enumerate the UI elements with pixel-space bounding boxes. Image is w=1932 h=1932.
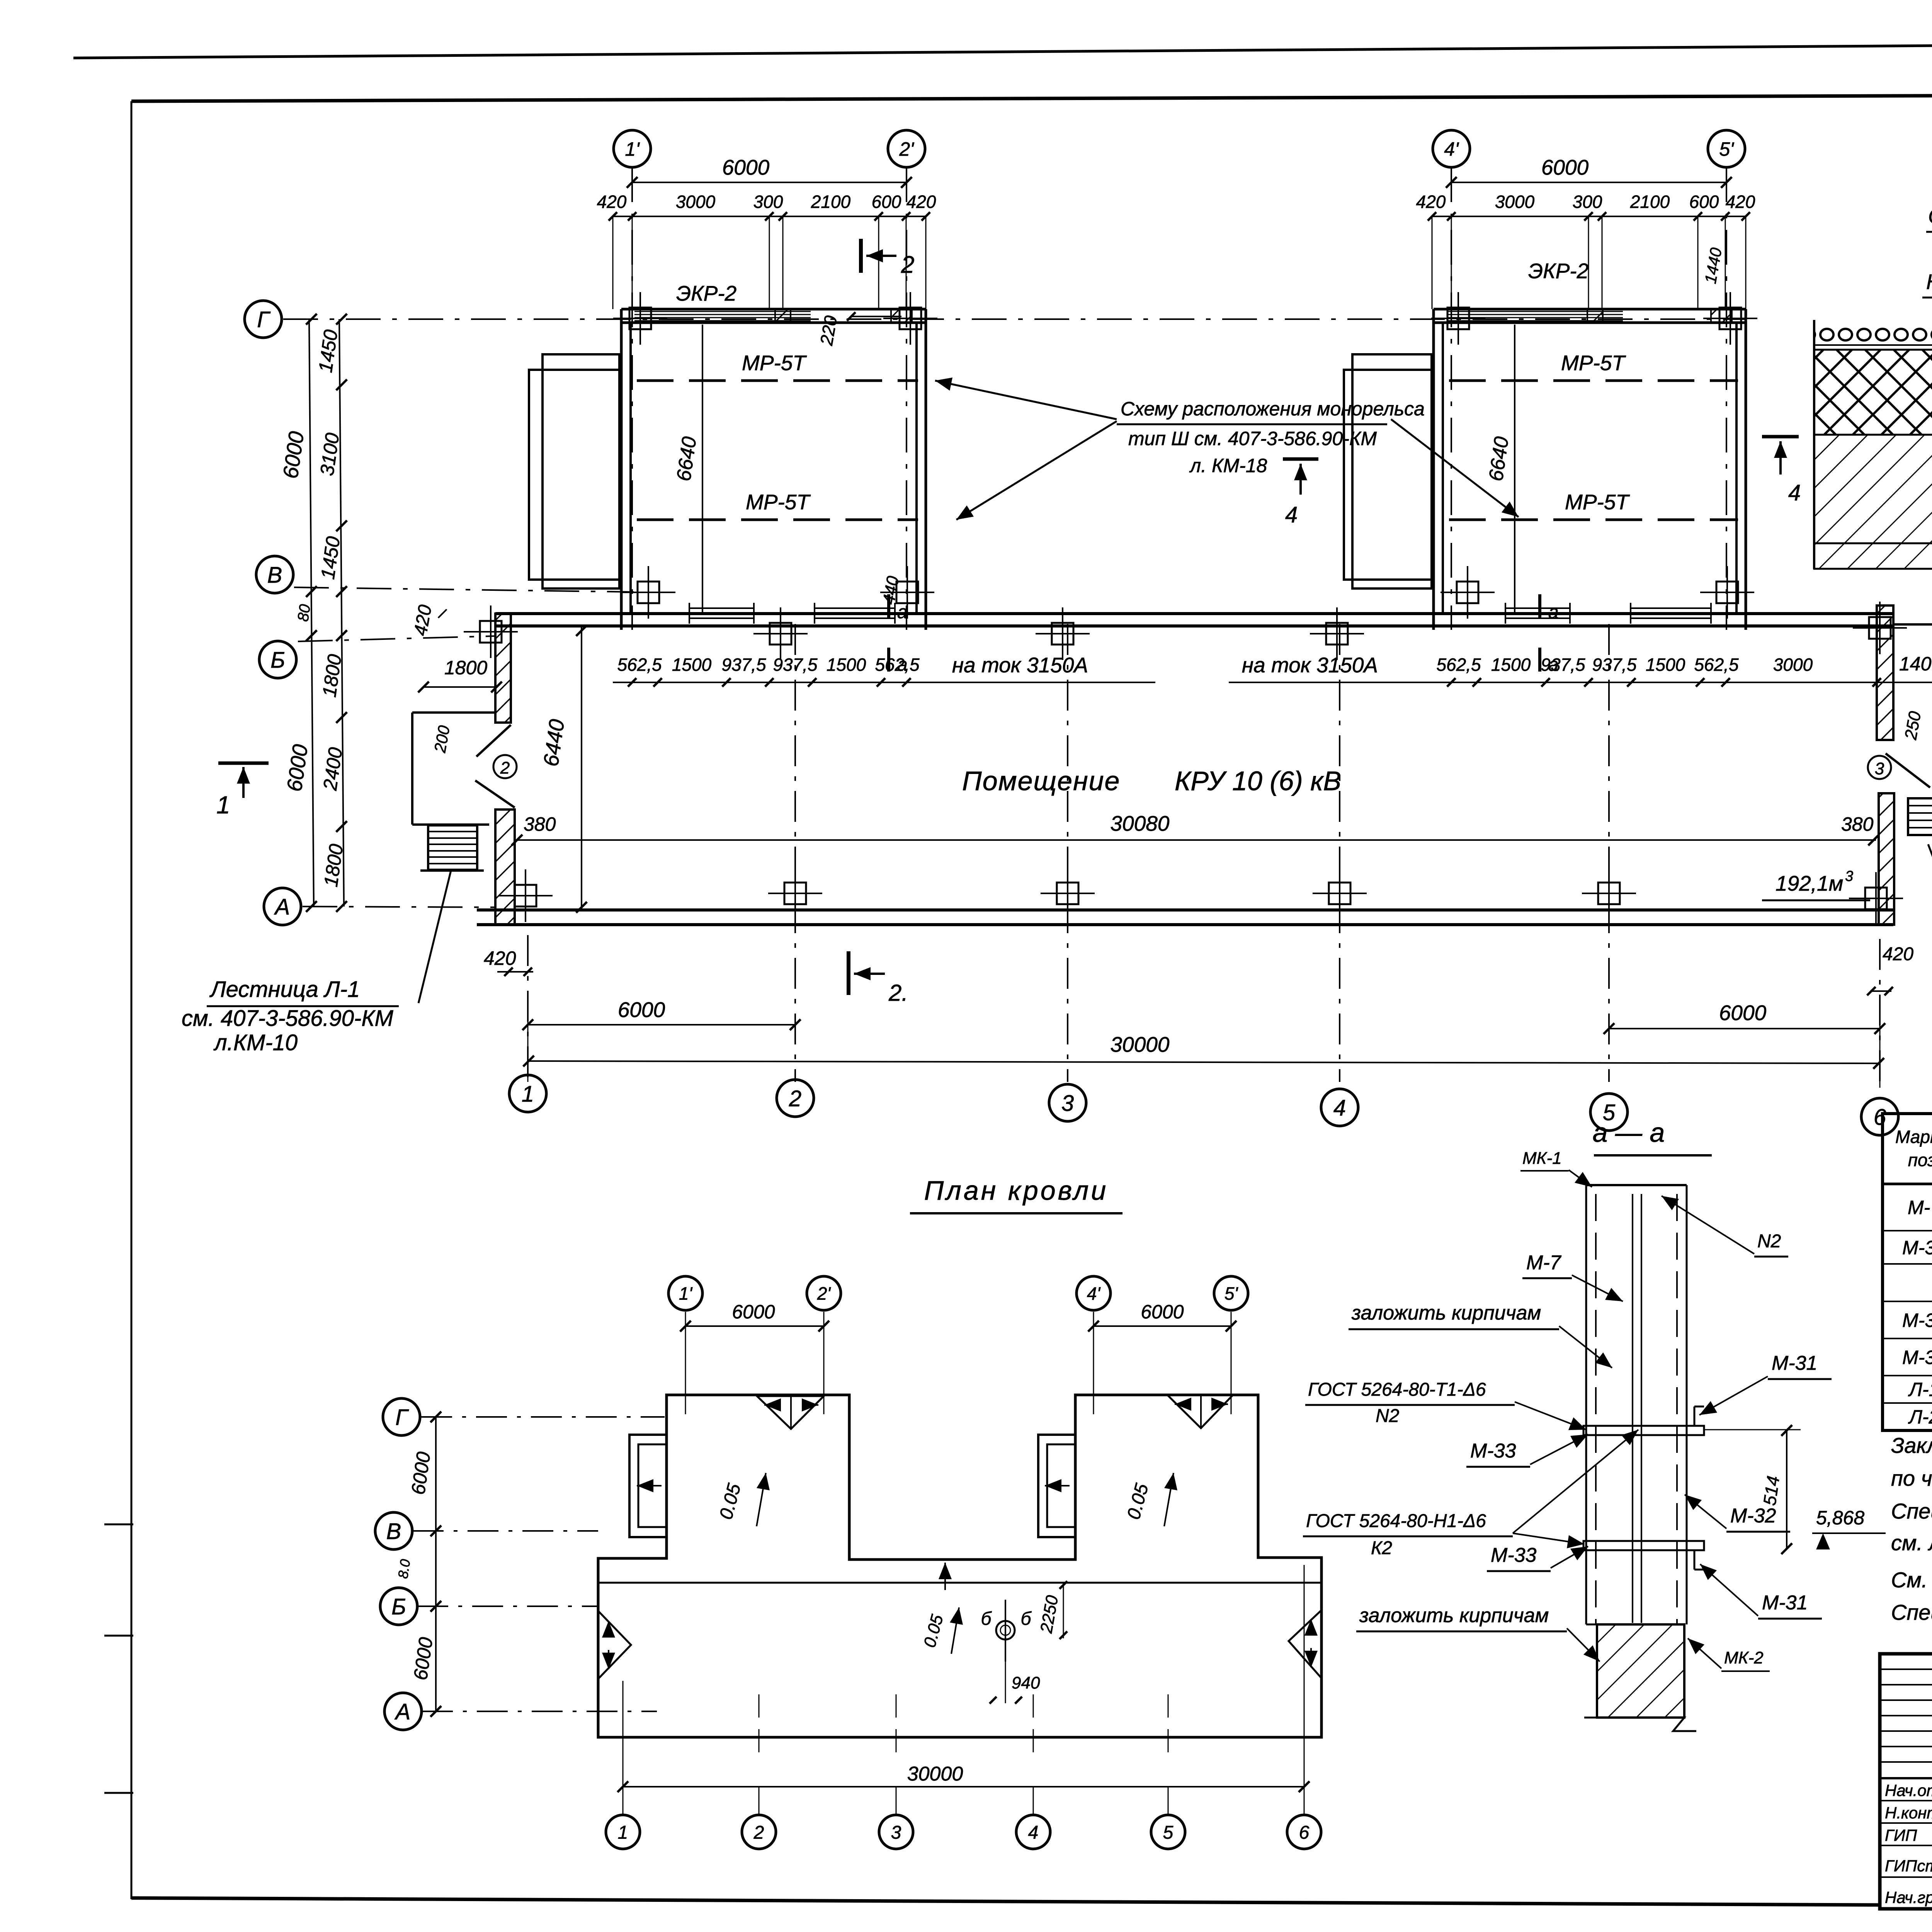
monorail MP-5t dashed [637, 379, 918, 382]
svg-text:М-33: М-33 [1470, 1440, 1516, 1462]
svg-text:б: б [1021, 1609, 1032, 1629]
svg-text:Марка,: Марка, [1895, 1127, 1932, 1147]
spec table grid [1883, 1114, 1932, 1430]
room1 axis circles [614, 130, 651, 167]
a-a flange 2 [1583, 1541, 1704, 1550]
room inner width dim [1514, 325, 1515, 614]
room axes [631, 167, 633, 630]
svg-text:М-31: М-31 [1772, 1352, 1817, 1374]
svg-text:420: 420 [1883, 944, 1913, 964]
svg-text:МР-5Т: МР-5Т [1561, 351, 1626, 375]
svg-text:3000: 3000 [1773, 655, 1813, 675]
column axes dash-dot vertical lines [794, 624, 796, 1082]
svg-text:600: 600 [1689, 192, 1719, 212]
svg-text:420: 420 [1726, 192, 1755, 212]
svg-text:192,1м: 192,1м [1776, 871, 1843, 895]
svg-text:6000: 6000 [1541, 155, 1589, 179]
section mark 2 top [859, 239, 863, 273]
svg-text:1: 1 [216, 791, 230, 819]
svg-text:ГОСТ 5264-80-Т1-Δ6: ГОСТ 5264-80-Т1-Δ6 [1308, 1379, 1486, 1400]
svg-text:А: А [274, 895, 290, 920]
svg-text:В: В [267, 563, 282, 588]
svg-text:4': 4' [1444, 138, 1459, 160]
svg-text:см. лист АС2-26: см. лист АС2-26 [1891, 1531, 1932, 1555]
svg-text:Спецификацию марок МК-1 и М: Спецификацию марок МК-1 и МК-2 [1891, 1499, 1932, 1523]
svg-text:См. вместе с листами АС2-6;: См. вместе с листами АС2-6;8. [1891, 1568, 1932, 1592]
svg-text:на ток 3150А: на ток 3150А [952, 653, 1088, 677]
svg-text:МК-1: МК-1 [1522, 1149, 1562, 1168]
svg-text:2: 2 [500, 759, 510, 777]
svg-text:Закладные в стене по оси „: Закладные в стене по оси „ б" для лестни… [1891, 1433, 1932, 1458]
svg-text:Помещение: Помещение [962, 766, 1120, 796]
roof letter axis lines [421, 1416, 665, 1418]
top wall grille lines [1447, 311, 1623, 312]
stairs L-1 [428, 825, 477, 870]
upper room walls [621, 308, 926, 311]
roof col stubs [759, 1694, 760, 1762]
upper room walls [1434, 308, 1746, 311]
svg-text:6000: 6000 [1141, 1301, 1184, 1323]
svg-text:6000: 6000 [1719, 1001, 1767, 1025]
room inner width dim [702, 325, 703, 614]
section mark 1 (left) [218, 762, 269, 765]
roof bottom circles [606, 1815, 640, 1849]
top wall grille lines [634, 311, 811, 312]
room1 porch [529, 370, 621, 580]
svg-text:1500: 1500 [672, 655, 712, 675]
svg-text:4: 4 [1285, 502, 1298, 527]
svg-text:б: б [981, 1609, 992, 1629]
fold marks [104, 1524, 133, 1526]
svg-text:N2: N2 [1757, 1231, 1781, 1252]
svg-text:30080: 30080 [1111, 811, 1170, 835]
svg-text:5,868: 5,868 [1816, 1507, 1864, 1529]
svg-text:4: 4 [1333, 1095, 1346, 1121]
svg-text:937,5: 937,5 [721, 655, 766, 675]
roof block 1 porch [629, 1435, 667, 1537]
svg-text:Нач.гр: Нач.гр [1885, 1888, 1932, 1906]
svg-text:Л-1: Л-1 [1908, 1379, 1932, 1400]
svg-text:3: 3 [1875, 759, 1884, 778]
wall small dims row (room1) [613, 682, 1155, 683]
svg-text:1800: 1800 [444, 657, 487, 679]
svg-text:Б: Б [391, 1594, 406, 1619]
svg-text:М-32: М-32 [1902, 1310, 1932, 1331]
svg-text:СБ7А-1: СБ7А-1 [1928, 204, 1932, 228]
svg-text:3000: 3000 [1495, 192, 1535, 212]
svg-text:1400: 1400 [1899, 653, 1932, 675]
svg-text:Л-2: Л-2 [1908, 1406, 1932, 1428]
svg-text:80: 80 [294, 603, 314, 622]
svg-text:600: 600 [872, 192, 901, 212]
svg-text:М-33: М-33 [1491, 1544, 1537, 1566]
svg-text:3: 3 [1061, 1091, 1074, 1116]
svg-text:ГОСТ 5264-80-Н1-Δ6: ГОСТ 5264-80-Н1-Δ6 [1306, 1511, 1486, 1531]
svg-text:2: 2 [789, 1086, 801, 1111]
svg-text:Г: Г [257, 307, 271, 332]
svg-text:М-31: М-31 [1902, 1237, 1932, 1259]
hall inner height dim 6440 [581, 626, 582, 910]
letter axis lines [283, 318, 1746, 320]
svg-text:420: 420 [1416, 192, 1446, 212]
paper top edge scan line [73, 40, 1932, 58]
roof section b mark [996, 1621, 1015, 1639]
left wall hatched segments [495, 614, 511, 723]
svg-text:Лестница Л-1: Лестница Л-1 [209, 977, 360, 1002]
svg-text:937,5: 937,5 [1592, 655, 1637, 675]
svg-text:2100: 2100 [1630, 192, 1670, 212]
room2 dim row [1432, 216, 1746, 217]
room1 dim row 420/3000/300/2100/600/420 [613, 216, 926, 217]
svg-text:ГИПстр: ГИПстр [1885, 1857, 1932, 1875]
main hall bottom wall [477, 908, 1893, 912]
svg-text:Нач.отд: Нач.отд [1885, 1781, 1932, 1799]
svg-text:30000: 30000 [907, 1763, 963, 1785]
svg-text:В: В [386, 1519, 401, 1544]
svg-text:6000: 6000 [618, 998, 665, 1022]
svg-text:л.КМ-10: л.КМ-10 [213, 1030, 298, 1055]
svg-text:1: 1 [618, 1822, 628, 1843]
svg-text:4': 4' [1087, 1284, 1101, 1304]
svg-text:4: 4 [1788, 480, 1801, 505]
svg-text:6: 6 [1874, 1105, 1886, 1130]
section mark 4 left [1283, 457, 1318, 461]
a-a angles M31 [1694, 1406, 1696, 1426]
svg-text:заложить кирпичам: заложить кирпичам [1359, 1604, 1549, 1627]
svg-text:5: 5 [1163, 1822, 1173, 1843]
svg-text:М-7: М-7 [1908, 1197, 1932, 1218]
svg-text:1': 1' [679, 1284, 693, 1304]
svg-text:4: 4 [1028, 1822, 1039, 1843]
room2 axis circles [1433, 130, 1470, 167]
column footprints [629, 308, 651, 329]
svg-text:1': 1' [625, 138, 640, 160]
svg-text:2: 2 [901, 252, 914, 278]
svg-text:а: а [1548, 602, 1559, 622]
svg-text:2': 2' [899, 138, 914, 160]
left slab: gravel [1814, 319, 1932, 344]
dim 30080 [514, 839, 1876, 841]
svg-text:3: 3 [891, 1822, 901, 1843]
svg-text:Б: Б [270, 648, 285, 673]
svg-text:940: 940 [1012, 1673, 1040, 1692]
svg-text:а — а: а — а [1593, 1117, 1665, 1148]
full-width bottom hatched band [1814, 543, 1932, 569]
a-a dim 514 [1786, 1430, 1787, 1549]
room2 porch [1344, 370, 1434, 580]
vestibule outline [412, 711, 495, 714]
section mark 2 bottom [847, 951, 850, 995]
roof side triangles [598, 1611, 631, 1679]
a-a brick block [1597, 1624, 1684, 1718]
room axes [1451, 167, 1452, 630]
svg-text:300: 300 [753, 192, 783, 212]
svg-text:М-32: М-32 [1730, 1505, 1776, 1527]
svg-text:на ток 3150А: на ток 3150А [1242, 653, 1378, 677]
svg-text:Н1: Н1 [1926, 270, 1932, 294]
svg-text:План кровли: План кровли [924, 1175, 1109, 1206]
svg-text:М-7: М-7 [1526, 1252, 1562, 1274]
revision table [1880, 1668, 1932, 1670]
svg-text:2': 2' [817, 1284, 832, 1304]
title block outer [1880, 1654, 1932, 1909]
svg-text:30000: 30000 [1111, 1032, 1170, 1056]
svg-text:М-33: М-33 [1902, 1347, 1932, 1368]
section mark 4 right [1762, 435, 1799, 439]
svg-text:л. КМ-18: л. КМ-18 [1189, 455, 1267, 476]
svg-text:937,5: 937,5 [1541, 655, 1585, 675]
svg-text:МР-5Т: МР-5Т [746, 490, 811, 514]
svg-text:см. 407-3-586.90-КМ: см. 407-3-586.90-КМ [182, 1006, 394, 1031]
svg-text:Г: Г [395, 1405, 409, 1430]
svg-text:8.0: 8.0 [395, 1558, 413, 1580]
svg-text:420: 420 [906, 192, 936, 212]
roof funnels [757, 1396, 824, 1429]
svg-text:6: 6 [1299, 1822, 1310, 1843]
svg-text:К2: К2 [1371, 1538, 1392, 1558]
door node 3 [1886, 753, 1930, 787]
svg-text:514: 514 [1759, 1475, 1783, 1507]
svg-text:ЭКР-2: ЭКР-2 [1528, 259, 1588, 283]
staff rows [1880, 1800, 1932, 1801]
door leaves node 2 [476, 725, 511, 757]
porch arrows [637, 1485, 662, 1486]
monorail MP-5t dashed [1449, 379, 1738, 382]
svg-text:562,5: 562,5 [1694, 655, 1739, 675]
svg-text:937,5: 937,5 [773, 655, 818, 675]
a-a flange 1 [1583, 1426, 1704, 1435]
svg-text:562,5: 562,5 [617, 655, 662, 675]
roof letter circles [383, 1398, 420, 1435]
stairs L-2 [1908, 798, 1932, 835]
svg-text:N2: N2 [1376, 1406, 1399, 1426]
svg-text:1500: 1500 [1491, 655, 1531, 675]
svg-text:6000: 6000 [722, 155, 770, 179]
svg-text:М-31: М-31 [1762, 1592, 1808, 1614]
right wall hatched segments [1877, 605, 1893, 740]
svg-text:заложить кирпичам: заложить кирпичам [1351, 1302, 1541, 1324]
svg-text:МК-2: МК-2 [1724, 1648, 1764, 1667]
svg-text:2.: 2. [888, 980, 908, 1006]
svg-text:5': 5' [1225, 1284, 1239, 1304]
svg-text:6000: 6000 [732, 1301, 775, 1323]
svg-text:3000: 3000 [676, 192, 716, 212]
svg-text:поз.: поз. [1908, 1150, 1932, 1170]
svg-text:Н.контр: Н.контр [1885, 1804, 1932, 1822]
svg-text:2: 2 [753, 1822, 764, 1843]
svg-text:КРУ 10 (6) кВ: КРУ 10 (6) кВ [1175, 766, 1341, 796]
svg-text:380: 380 [1841, 813, 1874, 835]
svg-text:Схему расположения монорельса: Схему расположения монорельса [1121, 398, 1425, 420]
svg-text:1500: 1500 [1646, 655, 1685, 675]
svg-text:1: 1 [522, 1082, 534, 1107]
svg-text:562,5: 562,5 [1436, 655, 1481, 675]
svg-text:МР-5Т: МР-5Т [742, 351, 807, 375]
left slab: insulation crosshatch [1814, 350, 1932, 435]
svg-text:2100: 2100 [811, 192, 851, 212]
svg-text:3: 3 [1845, 868, 1853, 884]
left slab: concrete diagonal [1814, 435, 1932, 543]
wall small dims row (room2) [1229, 682, 1932, 683]
svg-text:по чертежу 407-3-586.90-КМ-1: по чертежу 407-3-586.90-КМ-11 [1891, 1466, 1932, 1490]
svg-text:1500: 1500 [827, 655, 866, 675]
right end niche [1893, 623, 1932, 626]
main hall top wall [495, 612, 1893, 615]
svg-text:420: 420 [484, 947, 516, 969]
window openings in top wall [689, 608, 754, 618]
svg-text:380: 380 [524, 813, 556, 835]
svg-text:МР-5Т: МР-5Т [1565, 490, 1630, 514]
svg-text:5': 5' [1719, 138, 1734, 160]
svg-text:А: А [395, 1699, 411, 1725]
left vertical dimension chain 1 [309, 319, 314, 906]
section marks a-a on wall [887, 594, 890, 618]
svg-text:420: 420 [597, 192, 627, 212]
svg-text:ГИП: ГИП [1885, 1826, 1917, 1844]
roof block 2 porch [1038, 1435, 1075, 1537]
drawing frame [131, 94, 1932, 101]
svg-text:562,5: 562,5 [875, 655, 920, 675]
svg-text:ЭКР-2: ЭКР-2 [676, 281, 736, 305]
roof outline polygon [598, 1395, 1321, 1737]
roof left dim chain [435, 1417, 437, 1711]
a-a column body [1586, 1184, 1687, 1186]
grid circles 1-6 [509, 1075, 546, 1112]
letter axis circles [245, 301, 282, 338]
svg-text:300: 300 [1573, 192, 1602, 212]
roof top axes circles [668, 1276, 702, 1310]
svg-text:Спецификацию на ЖР-2 см. лис: Спецификацию на ЖР-2 см. лист АС2-25 [1891, 1600, 1932, 1624]
left vertical dimension chain 2 [339, 319, 344, 906]
svg-text:тип Ш см. 407-3-586.90-КМ: тип Ш см. 407-3-586.90-КМ [1128, 428, 1377, 449]
